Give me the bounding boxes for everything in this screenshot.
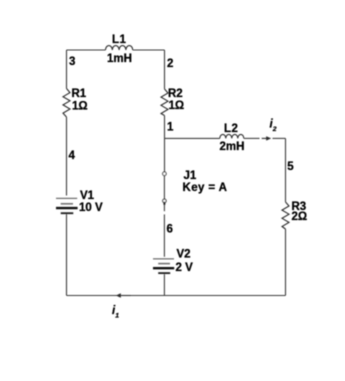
svg-text:3: 3 (69, 56, 75, 68)
svg-text:2: 2 (167, 58, 173, 70)
svg-text:Key = A: Key = A (183, 182, 228, 194)
svg-text:L2: L2 (224, 123, 238, 135)
wire middle vertical node1 (164, 116, 166, 173)
svg-text:6: 6 (167, 224, 173, 236)
wire right vertical upper (285, 138, 287, 202)
current arrow i2 (262, 136, 272, 140)
wire left vertical middle (66, 117, 68, 196)
inductor L2 (220, 134, 244, 138)
svg-text:R1: R1 (72, 88, 87, 100)
current arrow i1 (116, 293, 131, 297)
wire middle vertical upper (164, 50, 166, 89)
wire left vertical lower (66, 214, 68, 295)
wire right vertical lower (285, 229, 287, 296)
svg-text:2mH: 2mH (220, 141, 245, 153)
wire top-left horizontal (67, 49, 106, 51)
svg-text:1Ω: 1Ω (72, 101, 88, 113)
battery V1 (56, 198, 78, 213)
svg-text:R2: R2 (168, 88, 183, 100)
svg-text:i2: i2 (270, 119, 277, 133)
resistor R3 (282, 202, 289, 229)
wire node1 to L2 (165, 137, 220, 139)
svg-text:i1: i1 (112, 305, 119, 319)
wire left vertical upper (66, 50, 68, 89)
battery V2 (153, 259, 174, 273)
wire bottom (67, 295, 286, 297)
wire middle vertical below switch (163, 202, 165, 257)
resistor R1 (63, 89, 70, 118)
svg-text:2 V: 2 V (176, 262, 194, 274)
svg-text:L1: L1 (112, 34, 127, 46)
wire top-right horizontal (133, 49, 165, 51)
svg-text:J1: J1 (184, 170, 197, 182)
svg-text:1: 1 (167, 122, 174, 134)
svg-text:4: 4 (69, 150, 76, 162)
svg-text:5: 5 (287, 161, 294, 173)
inductor L1 (106, 46, 133, 50)
resistor R2 (161, 89, 168, 116)
switch J1 (163, 172, 167, 203)
svg-text:1mH: 1mH (107, 53, 132, 65)
wire L2 to arrow (244, 137, 260, 139)
svg-text:2Ω: 2Ω (292, 211, 308, 223)
svg-text:1Ω: 1Ω (169, 100, 185, 112)
svg-text:V2: V2 (177, 249, 191, 261)
wire arrow to right corner (273, 137, 286, 139)
svg-text:10 V: 10 V (79, 202, 103, 214)
wire middle vertical lower (163, 274, 165, 295)
svg-text:V1: V1 (80, 190, 95, 202)
